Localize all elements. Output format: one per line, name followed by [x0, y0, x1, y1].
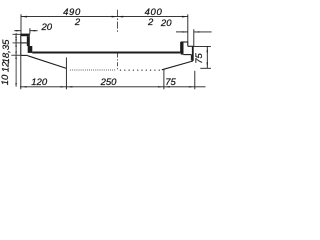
inner face right — [190, 55, 192, 61]
svg-text:75: 75 — [194, 53, 205, 64]
dim line 75 vertical — [206, 46, 208, 68]
right lip right edge — [187, 42, 189, 46]
ext line lip top left — [13, 33, 21, 35]
right lip left edge — [180, 42, 182, 52]
bottom-right slope — [162, 61, 193, 70]
left outer edge — [20, 34, 22, 56]
svg-text:250: 250 — [100, 77, 118, 88]
ext line x=163.9 — [163, 70, 165, 90]
ext line x=20 bottom — [20, 55, 22, 89]
svg-text:2: 2 — [74, 17, 81, 28]
arrows of 20 top-right (outside, pointing inward) — [182, 31, 188, 32]
centerline (axis of symmetry) — [116, 10, 118, 70]
extension line left edge up — [20, 14, 22, 34]
chain arrows — [15, 34, 17, 87]
svg-text:20: 20 — [160, 18, 172, 29]
left lip top — [21, 33, 30, 35]
taper line — [28, 56, 67, 69]
left wall filled — [27, 36, 30, 46]
ext line x=66.4 — [65, 57, 67, 89]
arrows of top dimension lines — [16, 16, 200, 33]
left lip filled bar — [21, 34, 30, 36]
arrows 250 — [66, 86, 72, 87]
bottom-left edge — [21, 54, 28, 56]
chain dim line vertical — [15, 33, 17, 87]
arrows of 20 top-left (outside, pointing inward) — [16, 30, 22, 31]
ext line bottom left — [11, 54, 20, 56]
arrow at x=21 pointing left — [21, 16, 27, 18]
ext line x=194.8 — [194, 71, 196, 90]
svg-text:75: 75 — [165, 77, 176, 88]
dotted line (sparse part) — [120, 69, 160, 70]
arrows at centerline — [112, 16, 118, 18]
arrow at x=187.8 pointing right — [182, 16, 188, 18]
extension line x=187.8 — [187, 14, 189, 42]
plate (thick blackened section) — [32, 52, 180, 54]
left rib filled — [28, 46, 33, 53]
svg-text:18,35: 18,35 — [1, 39, 12, 63]
arrows 120 — [21, 86, 27, 87]
arrow up — [207, 46, 208, 52]
ext line bottom right — [200, 67, 211, 69]
arrows 75 bottom — [164, 86, 170, 87]
svg-text:120: 120 — [31, 77, 48, 88]
inner step under right lip — [183, 54, 191, 56]
dim line 20 top-left tails — [14, 30, 21, 32]
extension line x=193.8 — [193, 29, 195, 46]
step top right — [188, 45, 194, 47]
svg-text:12: 12 — [1, 61, 12, 72]
dim line 400/2 — [117, 16, 187, 18]
arrow down — [207, 62, 208, 68]
pocket floor left — [21, 42, 27, 44]
extension line x=29.9 top — [29, 28, 31, 34]
ext line floor left — [13, 42, 21, 44]
svg-text:10: 10 — [0, 74, 11, 85]
svg-text:2: 2 — [147, 17, 154, 28]
right outer edge (thick) — [192, 46, 194, 61]
bottom dim line — [20, 86, 206, 88]
dim line 20 top-right tails — [176, 31, 188, 33]
right lip top — [181, 41, 188, 43]
dim line 490/2 — [21, 16, 117, 18]
svg-text:20: 20 — [41, 22, 53, 33]
ext line top right — [194, 45, 211, 47]
dotted line (thin web, dense part) — [70, 70, 115, 71]
right lip filled bar — [181, 42, 184, 55]
